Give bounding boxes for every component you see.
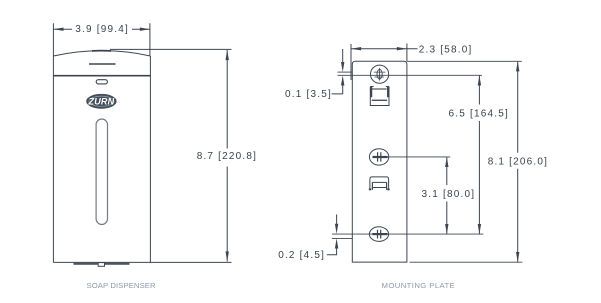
top keyhole bracket (370, 87, 389, 106)
dimension 0.1 [3.5] arrows and leader (332, 49, 345, 94)
0.2 lower reference line (332, 237, 352, 239)
dispenser bottom nozzle tab (98, 263, 104, 267)
dispenser cover/body seam (53, 75, 150, 77)
bottom screw (369, 227, 388, 242)
dimension 3.1 [80.0] line and arrows (445, 157, 448, 234)
dimension 3.9 [99.4] line and arrows (53, 28, 149, 31)
dimension 2.3 [58.0] line and arrows (351, 47, 418, 50)
svg-text:SOAP DISPENSER: SOAP DISPENSER (87, 281, 157, 290)
dimension 3.9 [99.4] extension lines (53, 23, 149, 56)
svg-text:8.7 [220.8]: 8.7 [220.8] (197, 151, 257, 162)
mounting plate outline (352, 61, 407, 262)
svg-text:0.1 [3.5]: 0.1 [3.5] (285, 89, 332, 100)
dispenser push button (96, 80, 107, 84)
svg-text:2.3 [58.0]: 2.3 [58.0] (419, 45, 473, 56)
dimension 2.3 [58.0] extension lines (351, 44, 407, 81)
svg-text:3.9 [99.4]: 3.9 [99.4] (75, 24, 129, 35)
svg-text:6.5 [164.5]: 6.5 [164.5] (449, 109, 509, 120)
middle keyhole bracket (370, 177, 389, 190)
dispenser top seam dark segment (92, 50, 111, 52)
dispenser body outline (53, 51, 150, 263)
plate top extension line (407, 60, 522, 62)
svg-text:ZURN: ZURN (88, 97, 115, 107)
bottom screw centerline (332, 233, 483, 235)
dimension 6.5 [164.5] line and arrows (478, 75, 481, 234)
dimension 8.7 [220.8] line and arrows (226, 50, 229, 262)
plate bottom extension line (410, 261, 523, 263)
svg-text:8.1 [206.0]: 8.1 [206.0] (488, 157, 548, 168)
svg-text:MOUNTING PLATE: MOUNTING PLATE (382, 281, 456, 290)
top screw (371, 65, 389, 83)
top screw centerline (338, 74, 483, 76)
dispenser bottom edge (53, 261, 150, 263)
dimension 8.1 [206.0] line and arrows (516, 61, 519, 262)
dispenser cover slot (89, 63, 116, 65)
middle screw centerline (379, 156, 450, 158)
dispenser bottom tray bar (74, 262, 98, 265)
dispenser sight window (96, 119, 107, 225)
dimension 8.7 [220.8] extension lines (110, 49, 232, 262)
dimension 0.2 [4.5] arrows and leader (327, 215, 339, 255)
svg-text:3.1 [80.0]: 3.1 [80.0] (422, 189, 476, 200)
middle screw (369, 149, 388, 165)
svg-text:0.2 [4.5]: 0.2 [4.5] (278, 250, 325, 261)
ZURN logo (87, 94, 116, 108)
0.1 upper reference line (338, 71, 353, 73)
